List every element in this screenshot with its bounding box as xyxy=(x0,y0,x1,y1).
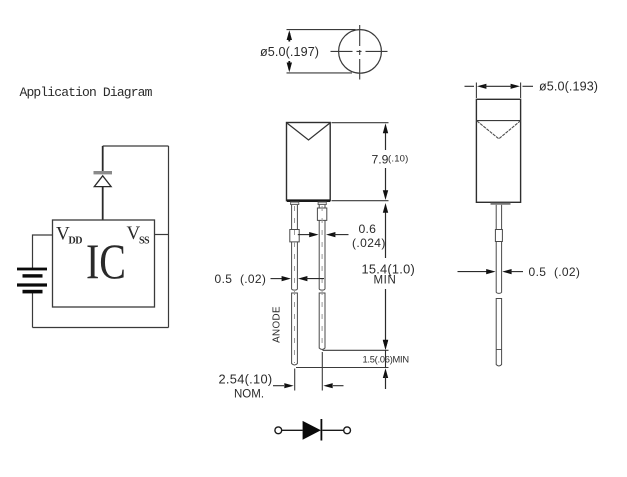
side chevron line xyxy=(476,120,520,122)
wire: top wire from LED to right branch xyxy=(103,145,169,147)
label 7.9(.10) xyxy=(372,153,409,167)
dim 7.9: extension lines xyxy=(332,122,389,124)
svg-text:IC: IC xyxy=(86,234,126,289)
label 2.54(.10) NOM. xyxy=(219,372,273,401)
label 15.4(1.0) MIN xyxy=(362,262,415,287)
chevron V notch xyxy=(287,123,329,140)
front left lead (anode, longer) xyxy=(290,205,299,366)
svg-text:ANODE: ANODE xyxy=(272,306,283,343)
wire: LED anode wire down to IC xyxy=(102,187,104,221)
lead nubs under package xyxy=(291,202,327,205)
label VDD xyxy=(56,224,82,247)
wire: battery top lead up and right to IC xyxy=(33,235,53,269)
centerline horizontal xyxy=(331,50,390,52)
dim line with outward arrows xyxy=(465,85,475,87)
dim 0.5 front: arrows at left lead xyxy=(271,278,284,280)
right terminal xyxy=(344,427,351,434)
wire xyxy=(322,429,343,431)
svg-text:SS: SS xyxy=(139,236,150,247)
svg-text:(.024): (.024) xyxy=(352,236,386,250)
front left lead centerline dashes xyxy=(294,206,296,363)
dim 2.54: extension drops from lead ends xyxy=(294,369,296,391)
wire xyxy=(282,429,303,431)
left terminal xyxy=(275,427,282,434)
svg-text:0.5: 0.5 xyxy=(215,272,233,286)
wire: right vertical branch xyxy=(168,146,170,328)
label 0.6 (.024) xyxy=(352,222,386,250)
label: Application Diagram xyxy=(20,85,153,100)
dim 1.5 lead tip: arrows xyxy=(383,340,388,350)
cathode bar xyxy=(320,419,322,441)
diode triangle xyxy=(303,421,321,440)
wire: LED cathode wire up xyxy=(102,146,104,171)
front right lead centerline dashes xyxy=(321,206,323,347)
extension line top xyxy=(287,29,356,31)
svg-text:1.5(.06)MIN: 1.5(.06)MIN xyxy=(363,355,409,365)
thick bottom edge xyxy=(287,199,330,202)
svg-text:7.9: 7.9 xyxy=(372,153,389,167)
side lead break line xyxy=(496,349,501,351)
arrow up xyxy=(287,30,292,40)
extension line at left lead end xyxy=(296,367,389,369)
svg-text:(.02): (.02) xyxy=(554,265,580,279)
svg-text:(.10): (.10) xyxy=(388,154,409,165)
side lead nub xyxy=(491,203,511,205)
extension lines up from package xyxy=(475,83,477,99)
label 1.5(.06)MIN xyxy=(363,355,409,365)
circle: LED top view xyxy=(339,30,382,74)
centerline vertical xyxy=(359,25,361,80)
LED D1 triangle xyxy=(94,176,111,187)
label 0.5 (.02) side xyxy=(529,265,581,279)
extension line bottom xyxy=(287,72,353,74)
battery B1 xyxy=(17,268,47,294)
svg-text:0.5: 0.5 xyxy=(529,265,547,279)
label diameter 5.0(.197) xyxy=(260,45,319,59)
dim 0.5 side: arrows at lead xyxy=(458,271,489,273)
label diameter 5.0(.193) xyxy=(539,80,598,94)
dim 2.54 line with outside arrows xyxy=(273,385,284,387)
svg-text:ø5.0(.197): ø5.0(.197) xyxy=(260,45,319,59)
dim 0.6: arrows at right lead xyxy=(298,234,311,236)
dim 7.9 vertical line with arrows xyxy=(385,128,387,150)
svg-text:ø5.0(.193): ø5.0(.193) xyxy=(539,80,598,94)
svg-text:Application Diagram: Application Diagram xyxy=(20,85,153,100)
svg-text:DD: DD xyxy=(69,236,83,247)
label VSS xyxy=(127,223,151,247)
LED D1 cathode bar xyxy=(94,171,113,174)
side lead xyxy=(495,205,502,366)
front right lead (cathode, shorter) xyxy=(317,205,326,350)
dim 15.4: vertical line xyxy=(385,208,387,258)
package body F xyxy=(287,123,331,201)
extension line at right lead end xyxy=(323,349,389,351)
label ANODE (rotated) xyxy=(272,306,283,343)
svg-text:0.6: 0.6 xyxy=(359,222,377,236)
svg-text:NOM.: NOM. xyxy=(234,389,264,401)
wire: battery bottom lead xyxy=(32,291,34,328)
wire: bottom wire xyxy=(33,327,169,329)
label 0.5 (.02) xyxy=(215,272,267,286)
side package body xyxy=(476,99,520,202)
svg-text:2.54(.10): 2.54(.10) xyxy=(219,372,273,387)
wire: IC right stub to branch xyxy=(155,234,169,236)
side chevron V xyxy=(477,121,520,139)
svg-text:(.02): (.02) xyxy=(240,272,266,286)
arrow down xyxy=(287,63,292,73)
svg-text:MIN: MIN xyxy=(374,275,397,287)
label IC xyxy=(86,234,126,289)
IC U1 box xyxy=(53,220,155,307)
